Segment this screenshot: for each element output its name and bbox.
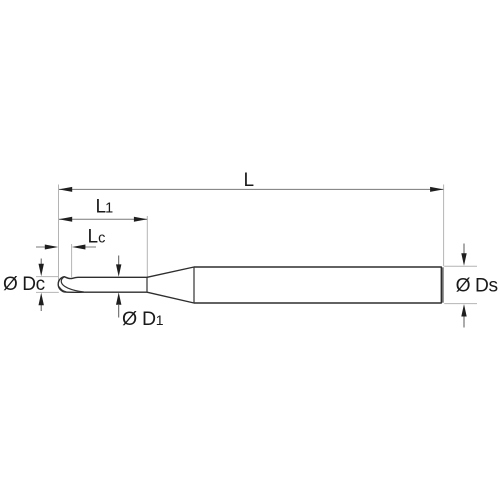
- svg-text:L: L: [244, 170, 255, 191]
- flute edge curve on ball: [61, 277, 84, 292]
- dimension L1 left arrowhead: [59, 217, 72, 222]
- dimension Dc top arrow (pointing down): [40, 259, 42, 269]
- taper-shank junction edge: [193, 267, 195, 303]
- dimension D1 top arrow (pointing down): [118, 256, 120, 269]
- dimension Dc bottom arrow (pointing up): [40, 301, 42, 311]
- svg-text:Ø Ds: Ø Ds: [456, 276, 498, 297]
- svg-text:Lc: Lc: [88, 227, 106, 248]
- dimension D1 bottom arrow (pointing up): [118, 305, 120, 318]
- dimension L1 line: [59, 218, 147, 220]
- svg-text:Ø D1: Ø D1: [122, 308, 164, 330]
- neck-taper junction edge: [146, 277, 148, 292]
- dimension Ds top arrow (pointing down): [463, 244, 465, 257]
- extension line Dc bottom: [36, 291, 59, 293]
- svg-text:Ø Dc: Ø Dc: [3, 274, 45, 295]
- extension line Ds top: [444, 265, 477, 267]
- bottom gash curve on ball: [59, 287, 66, 292]
- extension line L right (x=443.6): [443, 185, 445, 267]
- dimension L1 right arrowhead: [134, 217, 148, 222]
- dimension L right arrowhead: [430, 187, 444, 192]
- dimension L line: [59, 188, 443, 190]
- dimension Lc left arrow (outside): [36, 246, 50, 248]
- extension line left (tool tip, x=58.5): [58, 185, 60, 283]
- extension line Dc top: [36, 276, 59, 278]
- dimension Lc right arrow (outside): [84, 246, 96, 248]
- tool body outline (ball nose end mill): [58, 267, 441, 303]
- dimension Ds bottom arrow (pointing up): [463, 315, 465, 328]
- svg-text:L1: L1: [96, 197, 114, 218]
- shank end cap line: [442, 267, 444, 302]
- dimension L left arrowhead: [59, 187, 72, 192]
- extension line Lc right (x=71.6): [71, 244, 73, 277]
- extension line L1 right (x=147.3): [146, 216, 148, 277]
- extension line Ds bottom: [444, 303, 477, 305]
